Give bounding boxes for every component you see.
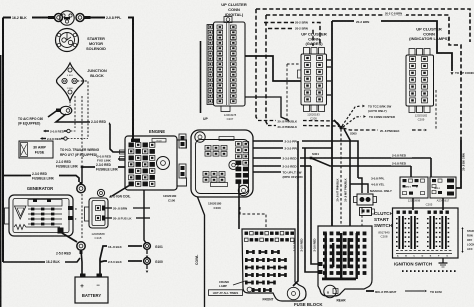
wire drop 2-3.0 RED b [311, 166, 318, 264]
label STARTER MOTOR SOLENOID [86, 37, 106, 51]
wire arrow 2-0.8 RED row2 [40, 137, 88, 141]
wire digital-gages b [245, 97, 289, 121]
wire S305 drop solid [344, 129, 350, 226]
ring terminal [48, 14, 63, 22]
wire junction to right dashed [77, 81, 88, 137]
wire C100 down to fuse block [238, 183, 240, 229]
label HOT AT ALL TIMES [209, 290, 243, 296]
connector UP cluster digital [207, 17, 245, 112]
ignition switch positions [461, 227, 474, 253]
dashed drop digital right b [266, 15, 268, 126]
label 2-3.0 RED FUSIBLE LINK right [96, 163, 119, 172]
scan edge artifact left [0, 55, 2, 307]
solid bus drop to S305 [332, 21, 340, 226]
label v 20-.8 M/T [344, 178, 348, 201]
wire left vertical bus [2, 18, 4, 263]
label 20-2 CBL BRN [384, 11, 406, 16]
label 2-5.0 BLK [108, 260, 123, 264]
label 8917840 C208 [378, 231, 390, 239]
label CRANK LAMP [219, 280, 245, 288]
label 12089888 C118 [91, 232, 105, 240]
dashed drop indicator [435, 90, 437, 130]
C100 pin group right [236, 142, 249, 184]
fuse block lobe circle [287, 287, 299, 299]
C100 left stub connector 2 [179, 164, 186, 178]
label 12064978 C207 [224, 113, 237, 121]
label JUNCTION BLOCK [87, 69, 107, 78]
ring terminal ign coil [97, 189, 104, 196]
wire to battery positive [81, 250, 82, 274]
engine connector C100 engine-side [125, 136, 177, 190]
label 2-3.0 RED [90, 119, 109, 124]
label 2-5.0 RED [56, 252, 72, 256]
wire 16-2 BLK top [3, 17, 48, 19]
label 16-2 BLK bottom [45, 259, 65, 264]
label 12020180 C100 [208, 202, 222, 210]
generator BAT stud [58, 228, 64, 234]
node S301 [310, 152, 320, 159]
ignition switch ground [439, 258, 448, 267]
label TO UP CONN [455, 71, 474, 75]
generator resistor [14, 225, 60, 230]
generator windings [28, 199, 62, 225]
ignition switch box [393, 208, 459, 258]
label v 20-.8 PNK/BLK [336, 178, 340, 201]
wire battery neg to G101 [100, 246, 142, 274]
node S305 [340, 126, 358, 136]
label GENERATOR [27, 186, 53, 191]
fuse block rear pins [322, 232, 366, 281]
label 20-2 BRN bus [356, 20, 369, 24]
wire 3-0.8 PPL [358, 177, 385, 194]
generator output pins [68, 206, 77, 221]
label MANUAL ONLY [370, 189, 392, 193]
wire dashed generator ground [81, 194, 83, 238]
ring terminal [77, 242, 85, 254]
engine connector left stubs [120, 150, 126, 161]
arrow TO CONN CENTER [343, 115, 396, 127]
connector UP cluster gages [298, 48, 327, 112]
arrow TO TCC BRK SW [342, 105, 392, 127]
label 16-.8 BLK [108, 245, 123, 249]
wire drop 2-3.0 RED a [305, 148, 318, 272]
engine connector boss [157, 157, 170, 170]
relay A2345617 [430, 177, 456, 198]
wire 16-2 BLK bottom [3, 258, 80, 262]
label 2-0.8 PPL [105, 15, 128, 20]
divider UP line [200, 41, 202, 113]
dashed to S305 [258, 121, 341, 128]
ignition switch pin letters [397, 255, 448, 258]
engine connector bracket [177, 140, 187, 186]
fuse block rear outline [318, 226, 372, 296]
gages right stubs [327, 60, 332, 95]
label REAR [336, 299, 346, 303]
connector UP cluster indicator lamps [406, 49, 434, 113]
dashed bus 1 [256, 9, 470, 42]
label ENGINE [149, 129, 165, 134]
wire TO A/C stub [48, 111, 57, 118]
ignition bottom tick row [402, 270, 456, 272]
node fusible link junction [81, 166, 84, 169]
label v 20-.8 DK GRN [462, 153, 466, 171]
wire 2-3.0 RED fusible from left edge [3, 176, 79, 183]
wire relay to ignition [413, 198, 443, 210]
wire TO ECM [366, 290, 442, 294]
label FRONT [263, 298, 274, 302]
label 12010998 [408, 199, 421, 203]
dashed S305 right [343, 128, 427, 133]
label 20-.8 PNK/BLK b [278, 125, 298, 129]
label TO IGN COIL [111, 195, 130, 199]
clutch start switch [354, 194, 377, 216]
ring terminal [56, 106, 72, 114]
label UP CLUSTER CONN DIGITAL [221, 2, 247, 17]
wire right edge 20-.8 DK GRN [456, 140, 461, 188]
dashed bus 3 [264, 23, 320, 47]
label COWL [195, 255, 199, 265]
label UP CLUSTER CONN IND [409, 27, 449, 42]
wire 4-0.8 YEL [350, 183, 385, 194]
wire engine ground down [144, 190, 146, 243]
generator box [5, 195, 74, 236]
C100 center boss [229, 160, 238, 169]
ground G100 [144, 258, 163, 273]
wire junction dashed from junction block [81, 96, 83, 164]
wire S305 drop dashed [340, 129, 342, 226]
ignition switch contacts [396, 211, 449, 250]
label UP [203, 117, 208, 121]
C100 bottom slot [211, 183, 228, 187]
wire 2-3.0 PPL b [253, 147, 332, 151]
label IGNITION SWITCH [394, 262, 432, 267]
fuse block front circle [247, 287, 252, 292]
label 16-2 BLK [11, 15, 32, 20]
label v 2-3.0 RED [300, 238, 304, 251]
spacer [0, 0, 1, 1]
ring terminal [77, 182, 85, 193]
solid bus 20-2 BRN [332, 21, 454, 75]
C100 left stub connector [179, 134, 186, 148]
label TO H.D. TRAILER WIRING [60, 148, 100, 157]
wire generator to battery ring [62, 233, 77, 242]
wire 20-.8 BRN [105, 207, 150, 211]
wire 2-0.8 RED fus label [97, 155, 112, 163]
fuse block rear left pins [319, 262, 323, 274]
wire arrow 2-0.8 RED row1 [43, 129, 76, 133]
label C205 [426, 203, 433, 207]
dashed C100 to fuseblock [240, 207, 266, 229]
wire battery neg to G100 [100, 261, 142, 262]
label 12020182 C209 [415, 114, 428, 122]
label TO A/C RPO C60 [18, 117, 43, 126]
starter solenoid stud circle [60, 11, 74, 25]
C100 pin group top-left [205, 146, 227, 157]
starter motor solenoid [56, 29, 79, 52]
wire 2-3.0 PPL a [253, 140, 358, 178]
wire S301 branch [311, 158, 411, 166]
label 20-2 BRN b [294, 26, 312, 31]
battery [75, 274, 108, 304]
wire junction down dashed [70, 96, 75, 128]
wire relay1 drop [410, 166, 412, 177]
divider COWL line [198, 197, 205, 307]
ground G101 [144, 243, 163, 258]
label 2-0.8 RED relay1 [391, 153, 412, 158]
connector C118 [85, 198, 109, 228]
label A2345617 [437, 199, 450, 203]
wire 20-.8 RED fus [105, 217, 150, 221]
fuse block front outline [242, 229, 306, 301]
fuse block front fuses [245, 250, 287, 292]
dashed bus 2 [266, 15, 461, 140]
dashed drop digital right a [256, 9, 258, 121]
label 20-2 BRN a [294, 20, 312, 25]
C100 pin group bottom-left [203, 172, 225, 183]
label v 2-3.0 PPL [293, 238, 297, 251]
wire relay2 drop [430, 158, 432, 177]
generator regulator triangle [15, 206, 27, 219]
label 2-3.0 RED FUSIBLE LINK left [31, 172, 59, 181]
label v 2-3.0 RED b [313, 238, 317, 251]
dashed frame gages [287, 64, 299, 120]
label 2-1.0 RED FUSIBLE LINK [56, 160, 79, 169]
relay 12010998 C205 [400, 177, 428, 198]
label CLUTCH START SWITCH [374, 211, 394, 228]
label 12020180 C100 engine [163, 194, 177, 203]
label 12020183 C200 [307, 113, 320, 121]
fuse block front top pins [245, 232, 295, 242]
wire 2-0.8 PPL [90, 18, 133, 140]
label UP CLUSTER CONN GAGES [301, 32, 327, 47]
ring terminal [76, 14, 91, 22]
wire 2-3.0 RED b [253, 165, 311, 169]
wire digital-gages a [245, 56, 301, 81]
ignition switch select line [396, 251, 452, 254]
wire TO IGN COIL arrow [109, 185, 130, 198]
fuse block rear lobe [324, 285, 338, 297]
wire into engine y159 [118, 158, 125, 160]
connector C100 bulkhead [191, 130, 253, 197]
label 20-.8 PNK/BLK a [278, 120, 298, 124]
wire 2-3.0 RED a [253, 157, 431, 161]
junction block [57, 63, 84, 101]
label TO UP LT SW [253, 171, 304, 180]
wire 2-3.0 RED fusible to engine [83, 166, 125, 168]
label FUSE BLOCK [294, 302, 323, 307]
dashed bus 4 [268, 29, 313, 47]
fuse 30 AMP [19, 141, 53, 158]
dashed clutch to fuse block [361, 207, 363, 226]
label 2-0.8 RED relay2 [391, 161, 412, 166]
wire 2-3.0 RED [56, 114, 125, 152]
wire vertical node to terminal [81, 167, 83, 183]
wire drop 2-3.0 PPL [293, 141, 298, 286]
